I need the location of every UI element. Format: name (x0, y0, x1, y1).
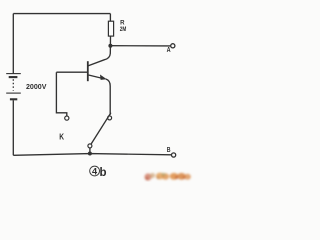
resistor R1 lead top (109, 14, 111, 22)
battery positive plate 2 (long) (6, 92, 21, 94)
battery intermediate cells (dashed) (12, 79, 14, 90)
battery negative plate 2 (short) (10, 98, 17, 100)
node junction dot bottom (88, 152, 92, 156)
wire collector (88, 46, 110, 66)
transistor Q1 base bar (87, 61, 89, 81)
wire bottom (13, 154, 171, 156)
svg-text:4: 4 (92, 167, 98, 177)
switch K blade (91, 113, 111, 144)
terminal K circle (65, 116, 69, 120)
svg-text:2M: 2M (120, 27, 127, 33)
resistor R1 lead bottom (109, 36, 111, 46)
wire base to K: vertical (56, 72, 66, 116)
svg-text:2000V: 2000V (26, 82, 46, 91)
battery negative plate (short) (9, 76, 18, 78)
node junction dot at resistor/collector (108, 44, 112, 48)
svg-text:K: K (59, 132, 64, 141)
svg-text:R: R (120, 19, 125, 26)
wire base (56, 71, 87, 73)
switch K fixed contact circle (108, 116, 112, 120)
caption (4)b (90, 166, 107, 179)
terminal A circle (171, 44, 175, 48)
svg-text:A: A (167, 45, 171, 54)
wire top (13, 13, 110, 15)
terminal B circle (172, 153, 176, 157)
battery 2000V (6, 74, 21, 100)
wire left lower (12, 100, 14, 155)
switch K pivot stub (89, 148, 91, 153)
switch K pivot contact circle (88, 144, 92, 148)
watermark bottom-right (144, 173, 191, 181)
wire left upper (12, 14, 14, 74)
battery positive plate (long) (6, 73, 21, 75)
wire node A horizontal (110, 45, 170, 47)
svg-text:B: B (167, 147, 171, 154)
resistor R1 body (108, 21, 113, 36)
svg-text:b: b (100, 167, 107, 179)
transistor Q1 emitter with arrow (89, 75, 111, 115)
